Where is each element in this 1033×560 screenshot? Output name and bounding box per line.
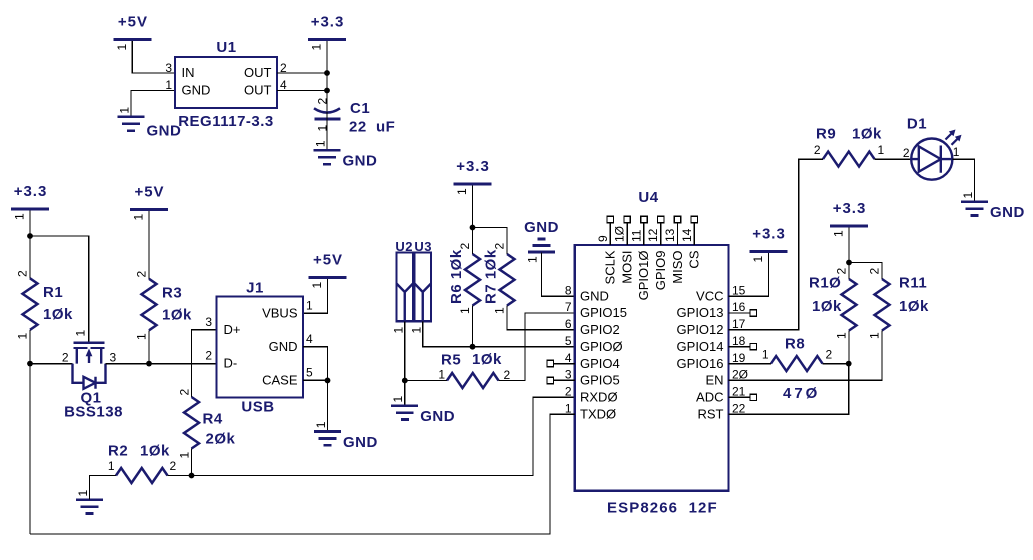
resistor R3 10k xyxy=(142,279,157,331)
svg-text:1Øk: 1Øk xyxy=(140,443,170,460)
svg-text:R11: R11 xyxy=(899,275,927,292)
U4 left pin names and numbers xyxy=(565,283,627,421)
svg-text:R1Ø: R1Ø xyxy=(809,275,841,292)
capacitor C1 22 uF xyxy=(314,98,395,136)
wire Q1 pin3 to J1 D- xyxy=(106,363,217,365)
junction +3.3/OUT2 xyxy=(324,70,330,76)
wire +3.3 rail down to C1 xyxy=(326,41,328,112)
power +3.3 (R10/R11) xyxy=(830,200,868,237)
svg-text:1: 1 xyxy=(76,490,90,497)
svg-text:1: 1 xyxy=(313,140,327,147)
ground (U2/R5) xyxy=(391,396,455,426)
wire RST net to pin22 xyxy=(729,364,849,415)
svg-text:2: 2 xyxy=(826,348,833,362)
svg-text:ADC: ADC xyxy=(696,390,723,405)
svg-text:GND: GND xyxy=(147,122,182,139)
wire R4 bottom to divider node xyxy=(191,449,193,476)
wire branch to R7 xyxy=(473,228,508,255)
svg-text:D+: D+ xyxy=(224,322,241,337)
wire +3.3 to R10 xyxy=(848,228,850,280)
svg-text:2: 2 xyxy=(170,459,177,473)
svg-text:1Øk: 1Øk xyxy=(899,298,929,315)
svg-text:22: 22 xyxy=(732,401,746,415)
wire GPIO5 stub xyxy=(554,379,575,381)
svg-text:U4: U4 xyxy=(638,189,658,206)
svg-text:GND: GND xyxy=(182,83,211,98)
svg-text:+3.3: +3.3 xyxy=(14,183,48,200)
svg-text:EN: EN xyxy=(705,373,723,388)
jumper U3 xyxy=(410,239,433,334)
svg-text:2: 2 xyxy=(178,389,192,396)
svg-text:MOSI: MOSI xyxy=(619,251,634,284)
LED D1 xyxy=(903,116,962,180)
wire +5V to U1 IN xyxy=(132,41,175,73)
svg-text:1: 1 xyxy=(165,78,172,92)
U4 top pin 14 CS xyxy=(680,216,702,268)
svg-text:GPIO12: GPIO12 xyxy=(677,322,724,337)
svg-text:3: 3 xyxy=(205,315,212,329)
wire gate of Q1 xyxy=(30,236,89,342)
svg-text:1: 1 xyxy=(953,145,960,159)
U4 top pin 12 GPIO9 xyxy=(646,216,668,290)
svg-text:1: 1 xyxy=(438,368,445,382)
wire R7 to GPIO2 xyxy=(507,306,575,330)
junction U2/R5/GND xyxy=(402,378,408,384)
svg-text:VBUS: VBUS xyxy=(262,305,298,320)
wire +5V to VBUS pin1 xyxy=(303,279,328,313)
resistor R2 10k xyxy=(116,468,168,483)
svg-text:1: 1 xyxy=(108,459,115,473)
wire +3.3 to R6 xyxy=(472,186,474,255)
svg-text:GND: GND xyxy=(343,153,378,170)
svg-text:7: 7 xyxy=(565,300,572,314)
U4 top pin 11 GPIO1&#216; xyxy=(629,216,651,300)
svg-text:5: 5 xyxy=(565,334,572,348)
wire R10 to RST net xyxy=(848,331,850,364)
svg-text:R1: R1 xyxy=(43,284,63,301)
svg-text:RXDØ: RXDØ xyxy=(580,390,618,405)
svg-text:2: 2 xyxy=(135,271,149,278)
resistor R6 10k xyxy=(465,254,480,306)
svg-text:D1: D1 xyxy=(907,116,927,133)
svg-text:1Øk: 1Øk xyxy=(852,126,882,143)
svg-text:1: 1 xyxy=(178,452,192,459)
wire to Q1 pin 2 xyxy=(30,363,73,365)
svg-text:8: 8 xyxy=(565,283,572,297)
svg-text:R7 1Øk: R7 1Øk xyxy=(483,249,500,304)
svg-text:1: 1 xyxy=(868,332,882,339)
svg-text:1: 1 xyxy=(493,307,507,314)
svg-text:+5V: +5V xyxy=(313,252,343,269)
svg-text:OUT: OUT xyxy=(244,83,272,98)
svg-text:GND: GND xyxy=(990,204,1025,221)
svg-text:1: 1 xyxy=(16,333,30,340)
svg-text:1Øk: 1Øk xyxy=(472,351,502,368)
svg-text:U1: U1 xyxy=(216,39,236,56)
wire J1 CASE pin5 xyxy=(303,379,328,381)
svg-text:GND: GND xyxy=(343,434,378,451)
svg-text:11: 11 xyxy=(629,229,643,242)
svg-text:2: 2 xyxy=(565,385,572,399)
wire ADC stub xyxy=(729,396,751,398)
power +3.3 (regulator output) xyxy=(308,14,346,51)
resistor R10 10k xyxy=(842,279,857,331)
svg-text:GPIO1Ø: GPIO1Ø xyxy=(636,251,651,301)
connector J1 USB xyxy=(205,280,313,416)
wire R5 pin2 to GPIO15 xyxy=(499,313,575,381)
svg-text:2Ø: 2Ø xyxy=(732,368,748,382)
svg-text:1: 1 xyxy=(310,282,324,289)
svg-text:19: 19 xyxy=(732,351,746,365)
svg-text:R5: R5 xyxy=(441,352,461,369)
svg-text:2: 2 xyxy=(868,268,882,275)
svg-text:1: 1 xyxy=(310,44,324,51)
wire GPIO12 to R9 xyxy=(729,159,824,330)
wire +3.3 to VCC pin15 xyxy=(729,253,769,296)
svg-text:4: 4 xyxy=(306,332,313,346)
svg-text:R6 1Øk: R6 1Øk xyxy=(448,249,465,304)
svg-text:R4: R4 xyxy=(203,411,223,428)
wire C1 plate gap xyxy=(326,112,328,121)
svg-text:GND: GND xyxy=(269,339,298,354)
svg-text:USB: USB xyxy=(241,399,274,416)
resistor R5 10k xyxy=(447,373,499,388)
svg-text:GPIO4: GPIO4 xyxy=(580,356,620,371)
svg-text:R3: R3 xyxy=(162,285,182,302)
svg-text:12: 12 xyxy=(646,228,660,242)
U4 top pin 13 MISO xyxy=(663,216,685,283)
ground (D1) xyxy=(961,192,1025,222)
junction R6/R7 xyxy=(470,225,476,231)
svg-text:1: 1 xyxy=(314,421,328,428)
svg-text:GPIO5: GPIO5 xyxy=(580,373,620,388)
svg-text:+3.3: +3.3 xyxy=(456,158,490,175)
ground (J1) xyxy=(314,421,378,451)
svg-text:CASE: CASE xyxy=(262,373,298,388)
svg-text:GND: GND xyxy=(420,408,455,425)
svg-text:2: 2 xyxy=(205,349,212,363)
svg-text:2Øk: 2Øk xyxy=(206,431,236,448)
svg-text:GPIO2: GPIO2 xyxy=(580,322,620,337)
svg-text:2: 2 xyxy=(315,98,329,105)
svg-text:22 uF: 22 uF xyxy=(349,119,395,136)
pin GPIO5 terminator xyxy=(547,377,553,383)
wire TXD0 long run xyxy=(30,414,575,534)
svg-text:R2: R2 xyxy=(108,443,128,460)
power +5V (regulator input) xyxy=(113,14,151,51)
svg-text:J1: J1 xyxy=(246,280,264,297)
svg-text:CS: CS xyxy=(687,250,702,268)
svg-text:2: 2 xyxy=(903,146,910,160)
svg-text:GPIO13: GPIO13 xyxy=(677,305,724,320)
wire R1 bottom down left rail xyxy=(29,330,31,534)
svg-text:GND: GND xyxy=(580,288,609,303)
svg-text:14: 14 xyxy=(680,228,694,242)
junction R2/R4/RXD0 xyxy=(189,473,195,479)
wire +5V to R3 xyxy=(148,211,150,279)
resistor R9 10k xyxy=(823,152,875,167)
wire ground to R2 pin1 xyxy=(90,476,117,500)
svg-text:1: 1 xyxy=(565,401,572,415)
transistor Q1 BSS138 xyxy=(62,330,123,421)
jumper U2 xyxy=(392,239,414,334)
svg-text:+5V: +5V xyxy=(134,184,164,201)
svg-text:4: 4 xyxy=(565,351,572,365)
svg-text:1: 1 xyxy=(832,230,846,237)
wire GPIO14 stub xyxy=(729,346,751,348)
svg-text:1Øk: 1Øk xyxy=(43,306,73,323)
svg-text:1: 1 xyxy=(74,330,88,337)
wire GPIO4 stub xyxy=(554,363,575,365)
svg-text:1: 1 xyxy=(135,333,149,340)
wire R8 to RST net xyxy=(823,363,850,365)
svg-text:2: 2 xyxy=(62,351,69,365)
wire U1 OUT pin2 to +3.3 node xyxy=(277,72,327,74)
wire divider node to RXD0 xyxy=(192,397,575,475)
wire R6 to GPIO0 net xyxy=(472,306,474,347)
svg-text:GND: GND xyxy=(524,219,559,236)
svg-text:U2: U2 xyxy=(395,239,413,254)
power +5V (R3 pullup) xyxy=(130,184,168,221)
svg-text:R9: R9 xyxy=(816,126,836,143)
svg-text:GPIO15: GPIO15 xyxy=(580,305,627,320)
svg-text:17: 17 xyxy=(732,317,746,331)
svg-text:1: 1 xyxy=(878,143,885,157)
svg-text:+3.3: +3.3 xyxy=(833,200,867,217)
svg-text:MISO: MISO xyxy=(670,251,685,284)
svg-text:1: 1 xyxy=(526,256,540,263)
junction R1/gate branch xyxy=(27,233,33,239)
wire GPIO13 stub xyxy=(729,312,751,314)
voltage regulator U1 REG1117-3.3 xyxy=(165,39,287,130)
svg-text:1Øk: 1Øk xyxy=(812,298,842,315)
ground (ESP GND pin) xyxy=(524,219,559,263)
junction R8/R10/RST xyxy=(846,361,852,367)
svg-text:5: 5 xyxy=(306,366,313,380)
wire R3 bottom to D- net xyxy=(148,330,150,363)
svg-text:18: 18 xyxy=(732,334,746,348)
wire ground to ESP pin8 xyxy=(542,252,575,296)
svg-text:GPIO16: GPIO16 xyxy=(677,356,724,371)
svg-text:9: 9 xyxy=(596,235,610,242)
svg-text:1: 1 xyxy=(455,188,469,195)
svg-text:16: 16 xyxy=(732,300,746,314)
svg-text:GPIO9: GPIO9 xyxy=(653,251,668,291)
svg-text:3: 3 xyxy=(110,351,117,365)
svg-text:1: 1 xyxy=(391,396,405,403)
ground (U1 GND) xyxy=(117,107,181,140)
wire D1 to ground xyxy=(952,159,974,201)
svg-text:1: 1 xyxy=(961,192,975,199)
power +3.3 (ESP VCC) xyxy=(750,226,788,263)
svg-text:+5V: +5V xyxy=(118,14,148,31)
svg-text:1: 1 xyxy=(458,307,472,314)
svg-text:1: 1 xyxy=(762,348,769,362)
svg-text:REG1117-3.3: REG1117-3.3 xyxy=(178,113,274,130)
svg-text:D-: D- xyxy=(224,356,238,371)
power +3.3 (R6/R7) xyxy=(454,158,492,195)
svg-text:U3: U3 xyxy=(414,239,432,254)
wire U1 GND pin to ground xyxy=(131,91,175,117)
power +5V (VBUS) xyxy=(309,252,347,289)
wire GPIO16 pin19 to R8 xyxy=(729,363,772,365)
svg-text:1: 1 xyxy=(392,327,406,334)
svg-text:RST: RST xyxy=(698,406,724,421)
svg-text:1: 1 xyxy=(835,332,849,339)
U4 top pin 9 SCLK xyxy=(596,216,618,284)
resistor R11 10k xyxy=(875,279,890,331)
svg-text:1: 1 xyxy=(117,107,131,114)
svg-text:47Ø: 47Ø xyxy=(783,385,820,402)
pin GPIO13 terminator xyxy=(750,310,756,316)
svg-text:3: 3 xyxy=(165,61,172,75)
svg-text:15: 15 xyxy=(732,283,746,297)
svg-text:2: 2 xyxy=(458,243,472,250)
svg-text:1: 1 xyxy=(751,256,765,263)
junction R6/GPIO0 xyxy=(470,344,476,350)
svg-text:TXDØ: TXDØ xyxy=(580,406,616,421)
svg-text:1: 1 xyxy=(132,214,146,221)
svg-text:VCC: VCC xyxy=(696,288,723,303)
wire R11 to EN pin20 xyxy=(729,331,883,381)
svg-text:ESP8266 12F: ESP8266 12F xyxy=(607,500,718,517)
power +3.3 (R1 pullup) xyxy=(11,183,49,220)
wire R9 to D1 xyxy=(875,158,912,160)
svg-text:1Øk: 1Øk xyxy=(162,307,192,324)
svg-text:13: 13 xyxy=(663,228,677,242)
svg-text:BSS138: BSS138 xyxy=(64,404,123,421)
ground (R2) xyxy=(76,490,103,514)
svg-text:1: 1 xyxy=(115,44,129,51)
svg-text:1Ø: 1Ø xyxy=(613,226,627,242)
resistor R7 10k xyxy=(500,254,515,306)
svg-text:2: 2 xyxy=(814,143,821,157)
svg-text:21: 21 xyxy=(732,385,746,399)
svg-text:6: 6 xyxy=(565,317,572,331)
wire U1 OUT pin4 to +3.3 node xyxy=(277,90,327,92)
svg-text:1: 1 xyxy=(410,327,424,334)
wire C1 to ground xyxy=(326,121,328,150)
wire to R5 pin1 xyxy=(405,380,447,382)
svg-text:IN: IN xyxy=(182,65,195,80)
svg-text:GPIOØ: GPIOØ xyxy=(580,339,623,354)
resistor R1 10k xyxy=(23,278,38,330)
svg-text:OUT: OUT xyxy=(244,65,272,80)
wire J1 GND pin4 down xyxy=(303,347,328,432)
svg-text:+3.3: +3.3 xyxy=(752,226,786,243)
wire U2 to ground xyxy=(404,321,406,405)
junction R3/D- net xyxy=(146,361,152,367)
junction +3.3/OUT4 xyxy=(324,88,330,94)
svg-text:GPIO14: GPIO14 xyxy=(677,339,724,354)
U4 top pin 1&#216; MOSI xyxy=(613,216,635,283)
junction GND/CASE xyxy=(325,378,331,384)
svg-text:2: 2 xyxy=(493,243,507,250)
wire U3 to GPIO0 xyxy=(423,321,575,346)
svg-text:3: 3 xyxy=(565,368,572,382)
wire R2 pin2 to divider node xyxy=(168,475,192,477)
junction R10/R11 xyxy=(846,260,852,266)
pin ADC terminator xyxy=(750,394,756,400)
wire J1 D+ to R4 xyxy=(192,330,217,397)
junction left rail / Q1 source xyxy=(27,361,33,367)
svg-text:1: 1 xyxy=(13,213,27,220)
resistor R4 20k xyxy=(184,397,199,449)
svg-text:2: 2 xyxy=(835,268,849,275)
IC U4 ESP8266 12F box xyxy=(575,189,729,517)
svg-text:R8: R8 xyxy=(785,336,805,353)
svg-text:2: 2 xyxy=(16,270,30,277)
pin GPIO4 terminator xyxy=(547,360,553,366)
wire +3.3 to R1 xyxy=(29,211,31,279)
svg-text:+3.3: +3.3 xyxy=(311,14,345,31)
svg-text:1: 1 xyxy=(306,299,313,313)
pin GPIO14 terminator xyxy=(750,344,756,350)
resistor R8 470 xyxy=(771,356,823,371)
U4 right pin names and numbers xyxy=(677,283,748,421)
wire branch to R11 xyxy=(849,263,882,280)
svg-text:SCLK: SCLK xyxy=(603,250,618,284)
svg-text:C1: C1 xyxy=(350,100,370,117)
ground (C1) xyxy=(313,140,377,170)
